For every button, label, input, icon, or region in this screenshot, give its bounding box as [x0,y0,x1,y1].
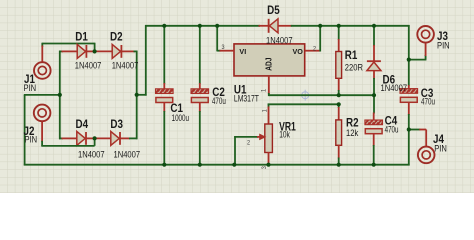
svg-text:1N4007: 1N4007 [266,34,293,45]
svg-text:D5: D5 [267,4,280,17]
svg-text:R1: R1 [345,49,358,62]
svg-text:1N4007: 1N4007 [112,59,139,70]
svg-text:LM317T: LM317T [234,94,259,104]
svg-text:220R: 220R [345,62,363,73]
svg-text:D4: D4 [76,118,89,131]
svg-text:ADJ: ADJ [264,58,274,71]
svg-text:D3: D3 [110,118,123,131]
svg-text:1N4007: 1N4007 [381,82,408,93]
svg-text:VI: VI [239,47,246,56]
svg-text:1N4007: 1N4007 [114,148,141,159]
svg-text:470u: 470u [421,96,435,107]
svg-text:D1: D1 [75,30,88,43]
svg-text:PIN: PIN [25,134,38,145]
svg-text:10k: 10k [279,129,290,139]
svg-text:D2: D2 [110,30,123,43]
svg-text:1000u: 1000u [172,113,189,124]
svg-text:470u: 470u [212,96,226,107]
svg-text:470u: 470u [385,124,399,135]
svg-text:PIN: PIN [434,143,447,154]
svg-text:12k: 12k [346,127,359,138]
svg-text:1N4007: 1N4007 [75,59,102,70]
svg-text:PIN: PIN [437,40,450,51]
svg-text:1N4007: 1N4007 [78,148,105,159]
svg-text:PIN: PIN [24,82,37,93]
svg-text:VO: VO [293,47,304,56]
